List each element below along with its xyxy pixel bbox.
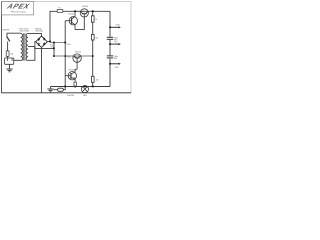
mains plug box [5,58,14,64]
bridge rectifier B1 [36,36,48,47]
resistor R3 [91,34,94,40]
wire Q1 emitter to Q2 base [75,17,84,30]
wire bridge minus drop [41,47,43,92]
wire secondary bottom to bridge left [28,42,36,61]
svg-text:800V 8A: 800V 8A [36,30,44,33]
svg-text:100u: 100u [67,56,71,58]
frame border [2,1,132,92]
wire R5 to bottom wire [74,85,76,87]
resistor R2 [91,16,94,22]
lower rail [54,55,93,57]
svg-text:BD139: BD139 [83,6,89,8]
capacitor C6 [107,56,113,58]
lamp LP1 [81,86,88,93]
wire plug earth [9,65,11,69]
output column mid [109,40,111,56]
switch SW1 lever [7,36,10,41]
svg-text:BC556: BC556 [69,70,75,72]
node chain top [92,10,94,12]
zener column D1 [64,21,66,87]
node -15 out [109,63,111,65]
output column upper [109,11,111,37]
top rail after R1 [63,10,110,12]
node C1 gnd [53,48,55,50]
output column lower [109,58,111,86]
node chain bottom [92,86,94,88]
transistor Q1 [65,11,77,29]
wire -15 out [110,63,119,65]
node 0V out [109,43,111,45]
wire +15 out [110,26,119,28]
wire raw plus rail [50,41,65,43]
svg-text:1k: 1k [95,19,97,21]
logo box [2,1,34,15]
svg-text:BC546: BC546 [68,14,74,16]
wire bridge plus riser [47,11,57,41]
bottom rail [2,92,132,94]
resistor R1 [57,10,63,13]
svg-text:PSU for Preamp: PSU for Preamp [11,11,27,14]
bottom wire [51,86,111,88]
transformer TR1 [21,33,28,60]
svg-text:1N4148: 1N4148 [67,95,74,97]
transistor Q3 [73,54,81,69]
resistor chain column [92,11,94,86]
node C1 top [53,42,55,44]
plug pin L [7,58,9,61]
svg-text:50Hz 30VA: 50Hz 30VA [20,30,30,33]
svg-text:BD140: BD140 [75,51,81,53]
node +15 out [109,26,111,28]
node C1 bottom [53,55,55,57]
capacitor C1 wire [53,42,55,56]
wire Q3 base to Q4 collector [75,69,77,71]
transistor Q4 [65,72,76,83]
bridge diodes [38,38,45,46]
APEX logo [5,2,32,10]
wire switch to fuse [7,42,9,51]
plug pin N [11,58,13,61]
svg-text:470u: 470u [67,44,71,46]
diode D5 capsule [54,87,66,92]
node capsule [64,86,66,88]
frame left edge [1,1,3,92]
transistor Q2 [80,9,88,17]
svg-text:LED: LED [83,95,87,97]
wire center tap to ground line [28,47,54,49]
node R5 [74,86,76,88]
svg-text:ON/OFF: ON/OFF [2,30,10,32]
node Q1 collector [74,10,76,12]
ground PE [6,69,12,72]
resistor R5 [74,82,77,86]
wire 0V out [110,43,119,45]
wire secondary top to bridge [28,34,42,37]
svg-text:-15V: -15V [114,67,119,69]
svg-text:10k: 10k [95,37,98,39]
resistor R4 [91,76,94,82]
node lamp top [84,86,86,88]
wire mains to transformer primary top [7,33,21,36]
ground output stub [50,87,52,89]
node D1 lower rail [64,55,66,57]
wire fuse to plug [7,56,9,58]
svg-text:4k7: 4k7 [96,79,99,81]
node D1 rail [64,42,66,44]
wire primary bottom [14,59,21,61]
svg-text:+15V: +15V [115,25,121,27]
fuse F1 [6,51,9,56]
capacitor C5 [107,37,113,39]
ground output [47,89,53,92]
node chain mid [92,55,94,57]
node bridge plus [49,41,51,43]
